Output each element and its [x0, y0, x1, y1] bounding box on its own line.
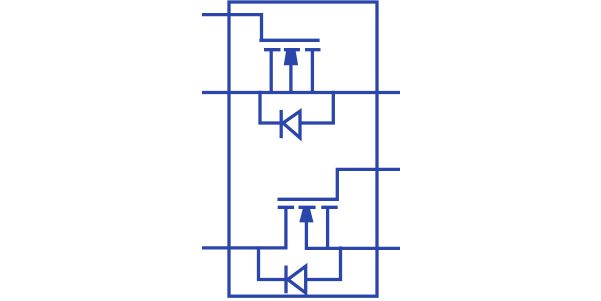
- Q1 gate plate: [259, 39, 319, 42]
- D1 triangle: [283, 111, 300, 138]
- Q2 channel segment middle: [299, 206, 316, 209]
- Q1 source terminal: [270, 50, 273, 93]
- package outline: [229, 2, 377, 296]
- Q1 channel segment left: [264, 48, 281, 51]
- Q1 channel segment right: [305, 48, 321, 51]
- wire: D2 cathode return: [306, 246, 341, 279]
- wire: Q1 gate lead with step: [202, 15, 262, 41]
- Q1 body arrow: [284, 50, 298, 65]
- wire: Q2 gate lead with step: [337, 169, 400, 199]
- Q1 drain terminal: [311, 50, 314, 93]
- wire: top rail: [202, 91, 400, 94]
- Q2 drain terminal: [326, 207, 329, 248]
- wire: D1 anode drop: [260, 91, 281, 123]
- Q1 body stem: [289, 64, 292, 93]
- D2 triangle: [288, 266, 306, 293]
- D1 cathode bar: [280, 110, 283, 138]
- Q2 channel segment left: [278, 206, 294, 209]
- wire: D1 cathode return: [300, 91, 333, 123]
- Q2 body arrow: [299, 209, 313, 223]
- D2 cathode bar: [284, 266, 287, 294]
- Q2 body stem with corner to rail: [306, 221, 400, 248]
- wire: bottom left rail: [202, 246, 288, 249]
- Q1 channel segment middle: [284, 48, 300, 51]
- Q2 source terminal: [284, 207, 287, 248]
- Q2 channel segment right: [321, 206, 337, 209]
- wire: D2 anode drop: [259, 246, 287, 279]
- Q2 gate plate: [278, 198, 339, 201]
